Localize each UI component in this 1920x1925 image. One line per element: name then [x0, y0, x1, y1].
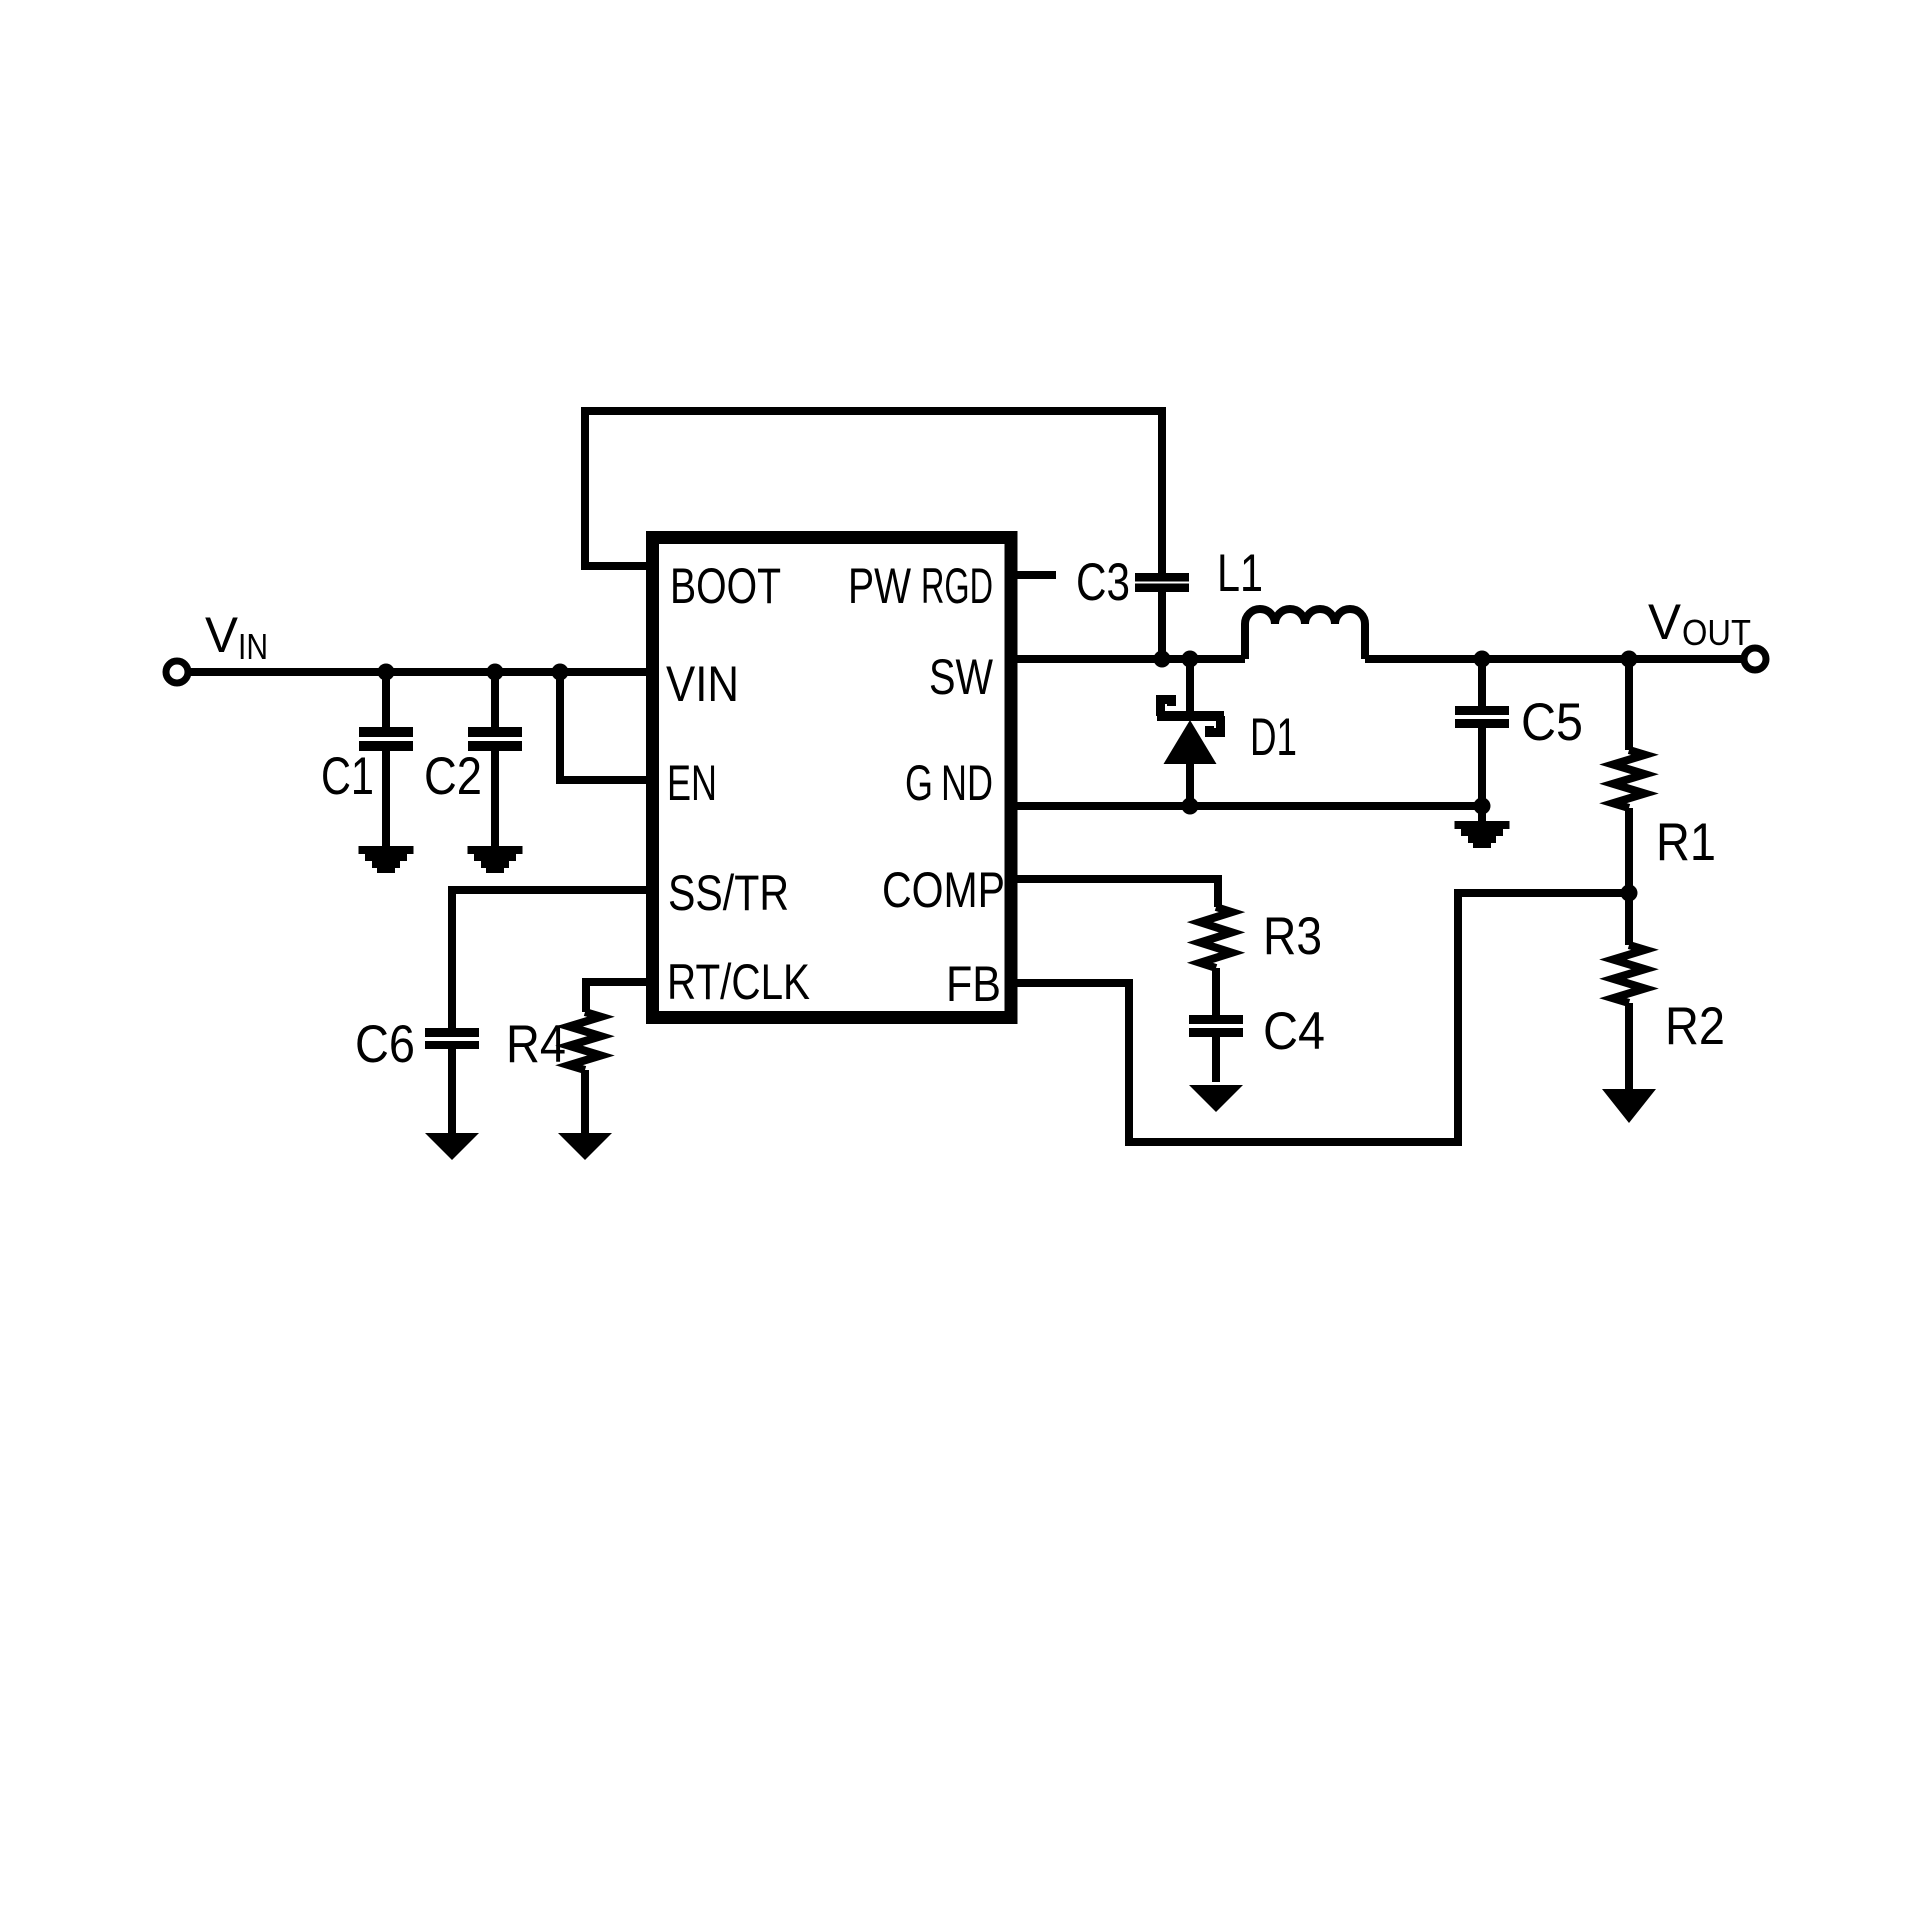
- svg-text:RT/CLK: RT/CLK: [667, 954, 810, 1010]
- ground R2 (arrow): [1602, 1089, 1656, 1123]
- capacitor C3: [1135, 573, 1189, 592]
- inductor L1: [1245, 609, 1365, 659]
- resistor R1: [1613, 750, 1645, 808]
- wire BOOT loop: [585, 411, 1162, 573]
- node junction C3/SW: [1154, 651, 1171, 668]
- wire C5 lower lead: [1478, 728, 1486, 821]
- node junction C5/GND: [1474, 798, 1491, 815]
- wire SW to L1: [1017, 655, 1245, 663]
- svg-text:BOOT: BOOT: [670, 558, 781, 614]
- capacitor C5: [1455, 706, 1509, 728]
- terminal VOUT: [1744, 648, 1766, 670]
- wire C1 upper lead: [382, 672, 390, 727]
- wire R1 upper lead: [1625, 659, 1633, 750]
- resistor R4: [569, 1012, 601, 1070]
- wire GND rail: [1017, 802, 1482, 810]
- wire L1 to VOUT: [1365, 655, 1744, 663]
- node junction FB/R1/R2: [1621, 885, 1638, 902]
- wire R2 upper lead: [1625, 893, 1633, 945]
- pin label GND: [905, 755, 993, 811]
- node junction C5/out: [1474, 651, 1491, 668]
- pin label PWRGD: [848, 558, 993, 614]
- ground C1: [359, 846, 414, 873]
- svg-text:R4: R4: [506, 1015, 566, 1074]
- svg-text:D1: D1: [1250, 708, 1297, 767]
- IC U1 body: [653, 538, 1012, 1018]
- node junction EN/VIN: [552, 664, 569, 681]
- ground C2: [468, 846, 523, 873]
- capacitor C1: [359, 727, 413, 751]
- wire R1 lower lead: [1625, 808, 1633, 893]
- svg-text:VIN: VIN: [666, 656, 739, 712]
- svg-text:V: V: [1648, 594, 1682, 650]
- wire VIN rail: [188, 668, 646, 676]
- wire PWRGD stub: [1017, 571, 1056, 579]
- capacitor C2: [468, 727, 522, 751]
- node junction R1/out: [1621, 651, 1638, 668]
- svg-text:C4: C4: [1263, 1002, 1325, 1061]
- wire D1 lower lead: [1186, 762, 1194, 806]
- svg-text:C3: C3: [1076, 553, 1130, 612]
- svg-text:RGD: RGD: [921, 558, 993, 614]
- wire C5 upper lead: [1478, 659, 1486, 706]
- svg-text:IN: IN: [238, 626, 268, 667]
- ground R4 (arrow): [558, 1133, 612, 1160]
- wire C6 lower lead: [448, 1049, 456, 1133]
- diode D1 (schottky): [1157, 700, 1224, 765]
- svg-text:EN: EN: [667, 755, 717, 811]
- wire C3 lower lead: [1158, 592, 1166, 659]
- svg-text:C1: C1: [321, 747, 374, 806]
- wire FB net: [1017, 893, 1629, 1142]
- svg-text:OUT: OUT: [1682, 612, 1751, 653]
- wire C2 lower lead: [491, 751, 499, 846]
- node junction D1/GND: [1182, 798, 1199, 815]
- wire EN branch: [560, 672, 646, 780]
- svg-text:R3: R3: [1263, 907, 1322, 966]
- capacitor C6: [425, 1028, 479, 1049]
- svg-text:C6: C6: [355, 1015, 415, 1074]
- resistor R2: [1613, 945, 1645, 1003]
- net label VIN: [205, 607, 268, 667]
- wire D1 upper lead: [1186, 659, 1194, 713]
- node junction C1/VIN: [378, 664, 395, 681]
- wire SS/TR branch: [452, 890, 646, 1028]
- node junction C2/VIN: [487, 664, 504, 681]
- svg-text:R2: R2: [1665, 997, 1725, 1056]
- capacitor C4: [1189, 1015, 1243, 1037]
- svg-text:L1: L1: [1217, 544, 1263, 603]
- svg-text:C5: C5: [1521, 693, 1583, 752]
- resistor R3: [1200, 907, 1232, 968]
- svg-text:C2: C2: [424, 747, 482, 806]
- svg-text:V: V: [205, 607, 239, 663]
- svg-text:G: G: [905, 755, 933, 811]
- wire C1 lower lead: [382, 751, 390, 846]
- wire C4 lower lead: [1212, 1037, 1220, 1082]
- ground C5: [1455, 821, 1510, 848]
- wire R3 to C4: [1212, 968, 1220, 1015]
- svg-text:SW: SW: [929, 649, 994, 705]
- svg-text:SS/TR: SS/TR: [668, 865, 789, 921]
- wire C2 upper lead: [491, 672, 499, 727]
- wire R4 lower lead: [581, 1070, 589, 1133]
- svg-text:COMP: COMP: [882, 862, 1005, 918]
- svg-text:PW: PW: [848, 558, 912, 614]
- wire RT/CLK branch: [586, 982, 646, 1012]
- wire R2 lower lead: [1625, 1003, 1633, 1089]
- net label VOUT: [1648, 594, 1751, 653]
- ground C6 (arrow): [425, 1133, 479, 1160]
- wire COMP branch: [1017, 879, 1218, 907]
- svg-text:R1: R1: [1656, 813, 1716, 872]
- terminal VIN: [166, 661, 188, 683]
- ground C4 (arrow): [1189, 1085, 1243, 1112]
- svg-text:FB: FB: [946, 956, 1001, 1012]
- node junction D1/SW: [1182, 651, 1199, 668]
- svg-text:ND: ND: [941, 755, 993, 811]
